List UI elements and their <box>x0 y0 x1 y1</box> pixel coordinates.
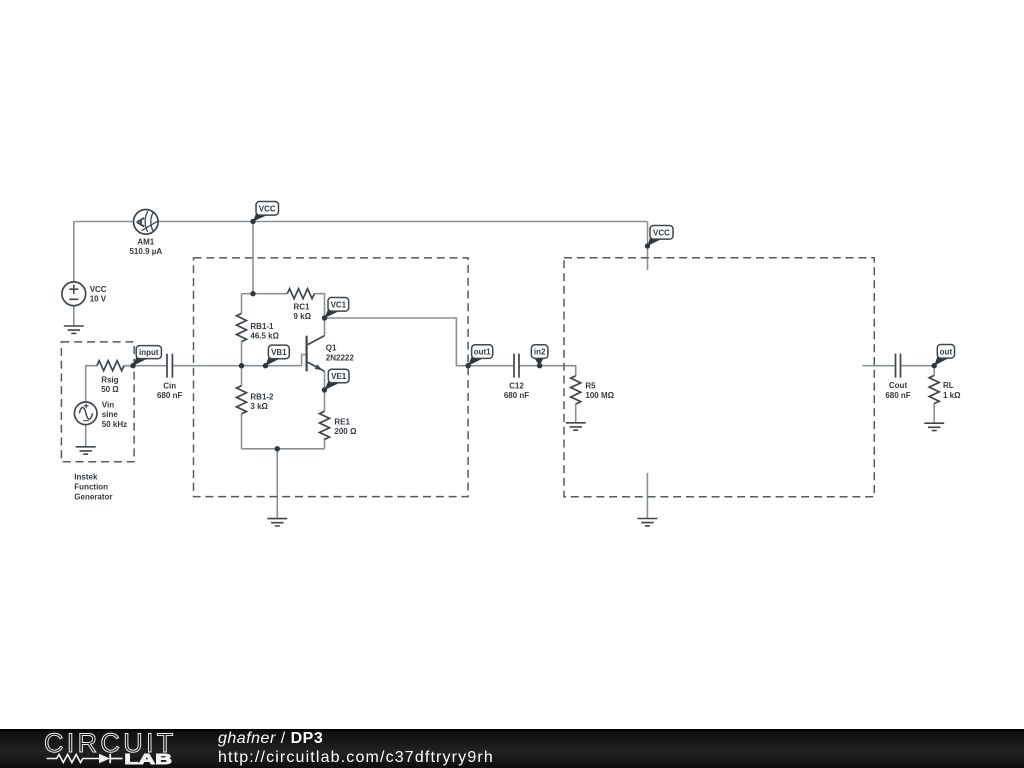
resistor Rsig <box>97 361 124 371</box>
svg-text:Function: Function <box>74 483 108 492</box>
footer bar <box>0 729 1024 768</box>
svg-text:Cin: Cin <box>163 381 176 390</box>
svg-text:RL: RL <box>943 381 954 390</box>
wire C12 to R5 <box>520 366 576 376</box>
dashed box Instek function generator <box>61 342 134 462</box>
breadcrumb ghafner / DP3 <box>218 730 323 748</box>
svg-text:VE1: VE1 <box>331 372 347 381</box>
svg-text:50 kHz: 50 kHz <box>102 420 127 429</box>
ground under amplifier <box>267 519 287 526</box>
wire collector node to Q1 <box>324 318 326 336</box>
ground under box 2 <box>637 519 657 526</box>
wire bottom rail to ground <box>276 449 278 519</box>
logo resistor-diode mark <box>47 755 99 763</box>
wire top rail right segment <box>158 221 647 223</box>
dashed box amplifier stage 1 <box>194 258 469 497</box>
svg-text:C12: C12 <box>509 381 524 390</box>
svg-text:out: out <box>940 347 953 356</box>
svg-text:RB1-2: RB1-2 <box>250 392 274 401</box>
wire VCC source top <box>73 222 75 283</box>
resistor R5 <box>571 376 581 404</box>
flag VCC left <box>253 212 268 222</box>
wire VCC flag stub into box 2 <box>647 222 649 271</box>
svg-text:VC1: VC1 <box>331 300 347 309</box>
wire RB1-2 to bottom rail <box>241 414 243 449</box>
junction emitter rail <box>275 446 280 451</box>
junction base divider <box>239 363 244 368</box>
ground under RL <box>924 423 944 430</box>
node in2 anchor <box>537 363 542 368</box>
capacitor Cin <box>167 354 172 378</box>
wire box 2 port to Cout <box>863 365 895 367</box>
flag in2 <box>532 355 543 366</box>
wire VC1 node to C12 <box>325 318 514 366</box>
wire RC1 to collector node <box>314 294 324 318</box>
dashed box stage 2 <box>564 258 874 497</box>
svg-text:Instek: Instek <box>74 472 98 481</box>
svg-text:680 nF: 680 nF <box>504 391 529 400</box>
flag VE1 <box>325 379 341 390</box>
wire RL to ground <box>933 403 935 423</box>
ground under VCC source <box>64 326 84 333</box>
wire Cin to base node B <box>173 365 302 367</box>
svg-text:sine: sine <box>102 410 119 419</box>
wire Rsig to input node <box>124 365 166 367</box>
wire RE1 to bottom rail <box>324 438 326 449</box>
resistor RB1-2 <box>237 386 247 414</box>
svg-text:2N2222: 2N2222 <box>326 353 355 362</box>
wire top rail left segment <box>74 221 134 223</box>
flag VCC right <box>648 236 663 246</box>
svg-text:Vin: Vin <box>102 400 114 409</box>
svg-text:200 Ω: 200 Ω <box>334 427 357 436</box>
junction divider top <box>250 291 255 296</box>
capacitor Cout <box>896 354 901 378</box>
node out anchor <box>932 363 937 368</box>
svg-text:LAB: LAB <box>124 751 171 768</box>
flag input <box>133 355 148 366</box>
wire top node down to RB1-1 <box>241 294 243 314</box>
schematic URL <box>218 749 494 767</box>
flag VB1 <box>266 355 281 366</box>
wire bottom rail of amplifier <box>242 448 325 450</box>
ground under R5 <box>566 423 586 430</box>
resistor RB1-1 <box>237 313 247 341</box>
wire R5 to ground <box>575 404 577 423</box>
svg-text:VCC: VCC <box>653 228 670 237</box>
svg-text:10 V: 10 V <box>90 295 107 304</box>
svg-text:Q1: Q1 <box>326 344 337 353</box>
flag VC1 <box>325 308 341 318</box>
transistor Q1 <box>307 336 325 372</box>
junction VCC rail <box>250 219 255 224</box>
svg-text:VCC: VCC <box>259 204 276 213</box>
wire emitter to RE1 <box>324 371 326 411</box>
ground under Vin <box>76 447 96 454</box>
node input anchor <box>130 363 135 368</box>
svg-text:1 kΩ: 1 kΩ <box>943 391 961 400</box>
svg-text:680 nF: 680 nF <box>885 391 910 400</box>
wire box 2 stub to ground <box>646 473 648 519</box>
svg-text:VB1: VB1 <box>271 348 287 357</box>
svg-text:R5: R5 <box>585 381 596 390</box>
node VE1 anchor <box>322 387 327 392</box>
svg-text:RE1: RE1 <box>334 417 350 426</box>
flag out <box>934 355 949 366</box>
resistor RE1 <box>320 411 330 439</box>
voltage source VCC <box>62 282 86 306</box>
svg-text:VCC: VCC <box>90 285 107 294</box>
svg-text:in2: in2 <box>534 348 546 357</box>
wire VCC source to ground <box>73 306 75 326</box>
svg-text:50 Ω: 50 Ω <box>101 385 119 394</box>
voltage source Vin sine <box>74 402 97 425</box>
wire divider top node to RC1 <box>242 293 288 295</box>
svg-text:9 kΩ: 9 kΩ <box>294 312 312 321</box>
wire RB1-1 to main node <box>241 342 243 366</box>
svg-text:100 MΩ: 100 MΩ <box>585 391 614 400</box>
ammeter AM1 <box>134 210 159 235</box>
resistor RL <box>929 375 939 403</box>
svg-text:510.9 µA: 510.9 µA <box>129 247 162 256</box>
CircuitLab logo <box>0 728 200 768</box>
resistor RC1 <box>287 289 314 299</box>
node VC1 anchor <box>322 315 327 320</box>
wire main node to RB1-2 <box>241 366 243 386</box>
svg-text:out1: out1 <box>474 348 491 357</box>
wire Cout to out node and RL <box>901 366 934 376</box>
wire VCC node down to divider <box>252 222 254 294</box>
junction VCC box 2 <box>645 243 650 248</box>
wire Vin to Rsig <box>86 366 97 402</box>
svg-text:Generator: Generator <box>74 493 112 502</box>
node VB1 anchor <box>263 363 268 368</box>
wire base lead of Q1 <box>302 355 306 366</box>
wire Vin to ground <box>85 425 87 447</box>
node out1 anchor <box>465 363 470 368</box>
svg-text:46.5 kΩ: 46.5 kΩ <box>250 332 279 341</box>
svg-text:Rsig: Rsig <box>101 375 118 384</box>
svg-text:RB1-1: RB1-1 <box>250 322 274 331</box>
capacitor C12 <box>514 354 519 378</box>
svg-text:Cout: Cout <box>889 381 908 390</box>
svg-text:AM1: AM1 <box>137 238 154 247</box>
svg-text:680 nF: 680 nF <box>157 391 182 400</box>
flag out1 <box>468 355 484 366</box>
svg-text:3 kΩ: 3 kΩ <box>250 402 268 411</box>
svg-text:RC1: RC1 <box>294 302 311 311</box>
svg-text:input: input <box>139 348 159 357</box>
